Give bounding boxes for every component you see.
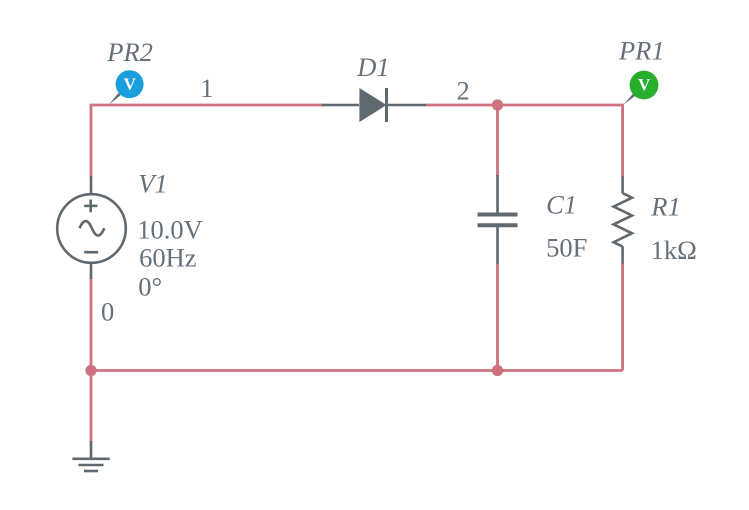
svg-text:D1: D1 [356, 52, 389, 82]
svg-text:R1: R1 [650, 192, 680, 222]
svg-text:10.0V: 10.0V [137, 215, 203, 245]
svg-text:PR1: PR1 [618, 35, 665, 65]
svg-text:60Hz: 60Hz [139, 243, 197, 273]
svg-text:0°: 0° [138, 272, 162, 302]
svg-text:2: 2 [457, 76, 470, 106]
svg-text:1kΩ: 1kΩ [651, 235, 697, 265]
svg-text:V: V [638, 75, 651, 94]
svg-text:50F: 50F [546, 233, 587, 263]
svg-text:V: V [124, 74, 137, 93]
svg-text:1: 1 [200, 73, 213, 103]
svg-text:0: 0 [101, 296, 114, 326]
svg-text:PR2: PR2 [106, 37, 153, 67]
svg-text:C1: C1 [546, 190, 577, 220]
svg-text:V1: V1 [138, 169, 167, 199]
